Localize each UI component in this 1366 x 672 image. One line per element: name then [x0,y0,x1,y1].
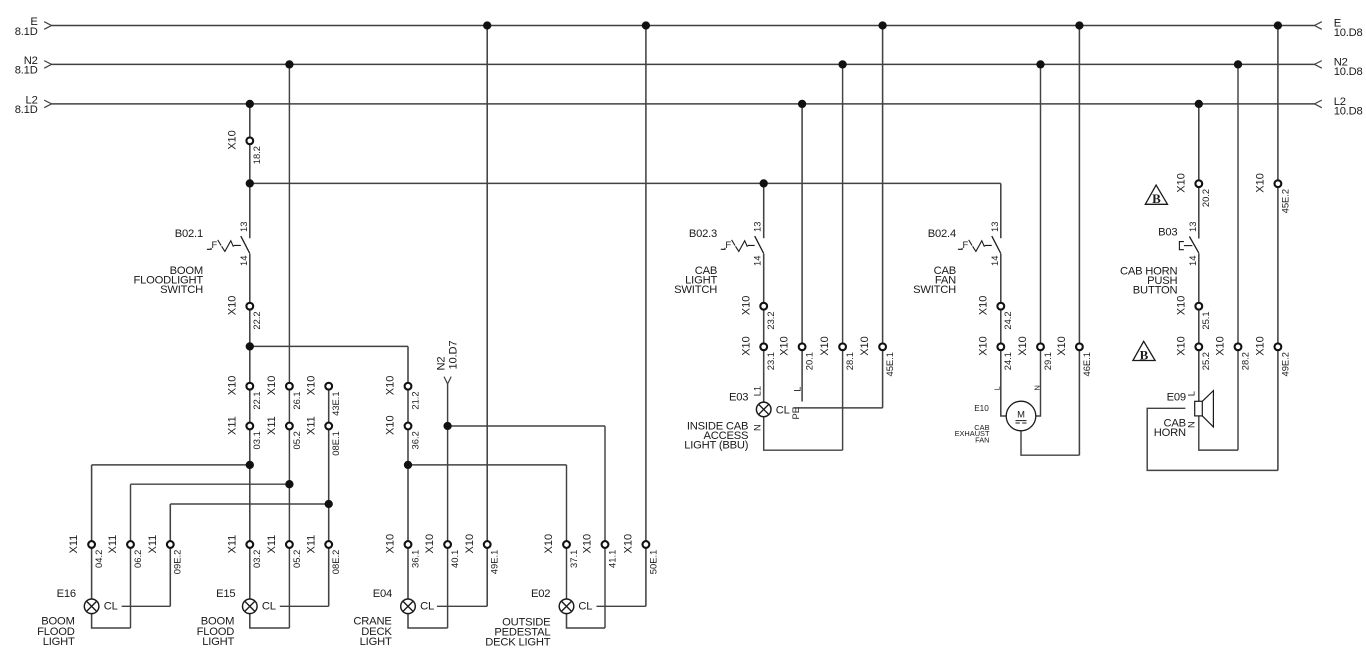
svg-text:13: 13 [1187,222,1198,232]
bus N2 [15,55,1363,78]
svg-text:FAN: FAN [975,435,989,444]
connector X10 pin 24.2 [977,296,1013,330]
svg-text:14: 14 [238,256,249,266]
lamp E03 INSIDE CAB ACCESS LIGHT (BBU) [684,386,802,452]
wire E15 CL link [280,605,329,607]
svg-text:LIGHT: LIGHT [202,636,234,648]
wire crane-deck column 21.2/36.2 down to lamp E04 [407,346,409,599]
junction N2.D7 branch [443,422,451,430]
wire branch y=346 to crane-deck column [250,345,408,347]
svg-text:F: F [963,239,969,250]
connector X10 pin 50E.1 [623,534,659,574]
junction L2/20.2 [1195,100,1203,108]
connector X10 pin 49E.1 [464,534,500,574]
svg-text:8.1D: 8.1D [15,26,38,38]
svg-text:14: 14 [752,256,763,266]
junction E/45E.2 [1274,21,1282,29]
label B02.4 CAB FAN SWITCH [913,228,956,296]
connector X10 pin 24.1 [977,336,1013,370]
wire E bus tap down to 46E.1 (motor PE) [1078,26,1080,456]
svg-text:X10: X10 [543,534,555,554]
svg-text:X10: X10 [266,376,278,396]
svg-text:X10: X10 [1255,173,1267,193]
svg-text:E02: E02 [531,588,550,600]
svg-text:X10: X10 [1056,336,1068,356]
svg-text:X10: X10 [819,336,831,356]
wire E16 earth column [169,504,171,606]
wire L2 tap down to 20.1 (E03 L) [801,104,803,402]
svg-text:CL: CL [578,600,592,612]
junction E04/E02 feed [404,461,412,469]
connector X10 pin 20.2 [1175,173,1211,207]
junction rail/B02.3 [760,179,768,187]
svg-text:X10: X10 [226,130,238,150]
connector X10 pin 23.2 [740,296,776,330]
motor E10 CAB EXHAUST FAN [955,385,1042,444]
wire L2 tap down to switch row (x=249.8) [249,104,251,238]
connector X10 pin 18.2 [226,130,262,164]
svg-text:08E.1: 08E.1 [330,431,341,456]
junction E15/E16 feed [246,461,254,469]
svg-text:L1: L1 [752,386,763,396]
svg-text:06.2: 06.2 [132,550,143,568]
svg-text:X10: X10 [1255,336,1267,356]
label B03 CAB HORN PUSH BUTTON [1120,227,1178,297]
connector X10 pin 45E.1 [859,336,895,376]
wire B02.1 out: switch to junction y=346 [249,254,251,347]
wire E16 neutral column [130,484,132,628]
connector X10 pin 23.1 [740,336,776,370]
switch B02.3 (latching switch with F actuator) [721,222,764,266]
junction N2/28.2 [1234,60,1242,68]
wire motor bottom PE link [1021,431,1079,455]
svg-text:X11: X11 [226,535,238,554]
svg-text:X10: X10 [740,296,752,316]
wire E04 CL link [437,605,487,607]
svg-text:B02.1: B02.1 [175,228,203,240]
lamp E02 OUTSIDE PEDESTAL DECK LIGHT [485,588,592,649]
wire E16 bottom to neutral [92,614,131,628]
svg-text:X11: X11 [226,416,238,435]
wire B02.3 out to lamp E03 [763,254,765,402]
svg-text:E10: E10 [974,404,989,413]
svg-text:BUTTON: BUTTON [1133,284,1178,296]
symbol warning triangle B (lower) [1133,341,1155,362]
svg-text:X10: X10 [385,376,397,396]
svg-text:36.2: 36.2 [409,431,420,449]
wire E16 feed column down to lamp [91,465,93,599]
svg-text:03.1: 03.1 [251,431,262,449]
connector X11 pin 08E.1 [305,416,341,455]
svg-text:20.1: 20.1 [804,352,815,370]
wire branch y=465 to E02 feed column [408,464,567,466]
svg-text:40.1: 40.1 [449,550,460,568]
svg-text:SWITCH: SWITCH [913,284,956,296]
connector X11 pin 03.1 [226,416,262,449]
svg-text:SWITCH: SWITCH [674,284,717,296]
svg-text:X10: X10 [226,376,238,396]
connector X10 pin 20.1 [779,336,815,370]
label B02.1 BOOM FLOODLIGHT SWITCH [134,228,204,296]
lamp E04 CRANE DECK LIGHT [353,588,434,648]
svg-text:X10: X10 [385,534,397,554]
svg-text:M: M [1017,409,1025,420]
connector X10 pin 41.1 [582,534,618,568]
junction earth branch [325,500,333,508]
wire N branch y=426 to E02 neutral column [448,425,605,427]
connector X11 pin 08E.2 [305,535,341,574]
svg-text:N: N [1186,421,1197,428]
connector X10 pin 28.1 [819,336,855,370]
svg-text:B: B [1152,191,1161,206]
svg-text:X10: X10 [582,534,594,554]
svg-text:36.1: 36.1 [409,550,420,568]
svg-text:14: 14 [1187,256,1198,266]
wire N2 tap down to 29.1 (motor N) [1036,64,1041,416]
svg-text:L: L [993,386,1002,390]
junction N2/28.1 [838,60,846,68]
svg-text:29.1: 29.1 [1042,352,1053,370]
svg-text:CL: CL [104,600,118,612]
svg-text:X11: X11 [305,535,317,554]
svg-text:CL: CL [420,600,434,612]
svg-text:B: B [1140,347,1149,362]
svg-text:LIGHT (BBU): LIGHT (BBU) [684,440,749,452]
svg-text:X11: X11 [107,535,119,554]
svg-text:X10: X10 [977,296,989,316]
svg-text:X10: X10 [305,376,317,396]
svg-text:49E.2: 49E.2 [1279,352,1290,377]
svg-text:43E.1: 43E.1 [330,391,341,416]
junction L2/20.1 [798,100,806,108]
junction E/46E.1 [1075,21,1083,29]
svg-text:CL: CL [776,404,790,416]
svg-text:20.2: 20.2 [1200,189,1211,207]
connector X10 pin 43E.1 [305,376,341,416]
switch B03 (momentary push button) [1179,222,1198,266]
svg-text:X10: X10 [1215,336,1227,356]
svg-text:X10: X10 [1175,336,1187,356]
connector X10 pin 22.1 [226,376,262,410]
wire E bus tap down to 45E.1 (E03 PE) [882,26,884,408]
connector X10 pin 49E.2 [1255,336,1291,376]
svg-text:X10: X10 [1175,173,1187,193]
svg-text:46E.1: 46E.1 [1081,352,1092,377]
wire branch to E16 lamp feed y=465 [92,464,250,466]
svg-text:F: F [212,239,218,250]
svg-text:18.2: 18.2 [251,146,262,164]
svg-text:X10: X10 [977,336,989,356]
junction N2/26.1 [285,60,293,68]
junction neutral branch [285,480,293,488]
svg-text:N: N [1032,385,1041,390]
wire B02.3 feed down from rail [763,183,765,238]
svg-text:24.1: 24.1 [1002,352,1013,370]
svg-text:22.1: 22.1 [251,391,262,409]
svg-text:DECK LIGHT: DECK LIGHT [485,637,551,649]
wire N2 tap down (26.1/05.2 column) [288,64,290,628]
svg-text:X11: X11 [266,416,278,435]
junction N2/29.1 [1036,60,1044,68]
connector X10 pin 25.2 [1175,336,1211,370]
svg-text:8.1D: 8.1D [15,65,38,77]
connector X11 pin 09E.2 [147,535,183,574]
svg-text:X11: X11 [305,416,317,435]
svg-text:25.1: 25.1 [1200,311,1211,329]
connector X10 pin 29.1 [1017,336,1053,370]
svg-text:10.D8: 10.D8 [1334,105,1363,117]
wire E02 neutral column [604,426,606,628]
svg-text:HORN: HORN [1154,427,1186,439]
label B02.3 CAB LIGHT SWITCH [674,228,717,296]
connector X11 pin 04.2 [68,535,104,568]
svg-text:09E.2: 09E.2 [172,550,183,575]
svg-text:X10: X10 [740,336,752,356]
svg-text:X10: X10 [424,534,436,554]
svg-text:49E.1: 49E.1 [489,550,500,575]
svg-text:25.2: 25.2 [1200,352,1211,370]
connector X10 pin 26.1 [266,376,302,410]
svg-text:B03: B03 [1158,227,1177,239]
horn E09 CAB HORN (loudspeaker) [1154,391,1214,439]
svg-text:B02.4: B02.4 [928,228,956,240]
svg-text:13: 13 [989,222,1000,232]
junction E/45E.1 [878,21,886,29]
wire L2 tap down to B03 push button [1198,104,1200,239]
connector X10 pin 22.2 [226,296,262,330]
bus L2 [15,95,1363,118]
junction rail/B02.1 [246,179,254,187]
svg-text:X11: X11 [147,535,159,554]
wire B03 out to horn L [1198,253,1200,401]
connector X11 pin 05.2 [266,416,302,449]
connector X11 pin 06.2 [107,535,143,568]
connector X11 pin 05.2 [266,535,302,568]
svg-text:10.D8: 10.D8 [1334,27,1363,39]
wire N2 tap down to 28.1 (E03 N) [842,64,844,450]
wire column 22.1/03.1 down to lamp E15 [249,346,251,599]
wire E02 bottom to neutral [567,614,606,628]
svg-text:SWITCH: SWITCH [160,284,203,296]
wire E bus tap down through 45E.2/49E.2 [1277,26,1279,471]
svg-text:28.2: 28.2 [1239,352,1250,370]
svg-text:N: N [752,424,763,431]
svg-text:X10: X10 [1017,336,1029,356]
svg-text:8.1D: 8.1D [15,104,38,116]
svg-text:10.D7: 10.D7 [448,341,460,370]
lamp E15 BOOM FLOOD LIGHT [197,588,276,648]
connector X10 pin 46E.1 [1056,336,1092,376]
wire earth column 49E.1 from bus E [486,26,488,607]
junction E/49E.1 [483,21,491,29]
svg-text:L: L [791,386,802,391]
svg-text:X10: X10 [859,336,871,356]
svg-text:X10: X10 [385,415,397,435]
wire N2 tap down to 28.2 (horn N) [1237,64,1239,450]
connector X11 pin 03.2 [226,535,262,568]
wire E16 CL link [122,605,171,607]
connector X10 pin 45E.2 [1255,173,1291,213]
svg-text:08E.2: 08E.2 [330,550,341,575]
symbol warning triangle B (upper) [1145,185,1167,206]
svg-text:22.2: 22.2 [251,311,262,329]
wire E03 N bottom link [764,417,843,451]
svg-text:41.1: 41.1 [606,550,617,568]
svg-text:LIGHT: LIGHT [360,636,392,648]
svg-text:05.2: 05.2 [291,431,302,449]
connector X10 pin 40.1 [424,534,460,568]
svg-text:X10: X10 [779,336,791,356]
svg-text:L: L [1186,391,1197,396]
node N2 10.D7 off-page arrow [436,341,460,628]
wire branch to E16 neutral y=484 [131,483,290,485]
svg-text:45E.1: 45E.1 [884,352,895,377]
svg-text:B02.3: B02.3 [689,228,717,240]
svg-text:X11: X11 [266,535,278,554]
wire E03 PE link [793,407,882,409]
svg-text:CL: CL [262,600,276,612]
svg-text:PE: PE [790,407,801,420]
svg-text:37.1: 37.1 [568,550,579,568]
wire horn N bottom link [1199,416,1238,450]
connector X10 pin 25.1 [1175,296,1211,330]
lamp E16 BOOM FLOOD LIGHT [37,588,117,648]
svg-text:LIGHT: LIGHT [43,636,75,648]
connector X10 pin 36.2 [385,415,421,449]
svg-text:X10: X10 [226,296,238,316]
svg-text:13: 13 [238,222,249,232]
svg-text:X11: X11 [68,535,80,554]
wire earth column 50E.1 from bus E [645,26,647,607]
svg-text:28.1: 28.1 [844,352,855,370]
svg-text:23.2: 23.2 [765,311,776,329]
svg-text:10.D8: 10.D8 [1334,66,1363,78]
svg-text:E09: E09 [1167,392,1186,404]
junction E/50E.1 [642,21,650,29]
svg-text:04.2: 04.2 [93,550,104,568]
svg-text:14: 14 [989,256,1000,266]
svg-text:E04: E04 [373,588,392,600]
svg-text:26.1: 26.1 [291,391,302,409]
bus E (top earth bus) [15,16,1363,39]
svg-text:E03: E03 [729,392,748,404]
switch B02.4 (latching switch with F actuator) [958,222,1001,266]
svg-text:X10: X10 [623,534,635,554]
wire branch to E16 earth y=504 [170,503,328,505]
wire E04 bottom to neutral [408,614,448,628]
connector X10 pin 21.2 [385,376,421,410]
wire horn PE link [1147,408,1278,470]
wire E15 bottom to neutral [250,614,290,628]
wire switched-L distribution rail y=183 [250,182,1001,184]
svg-text:13: 13 [752,222,763,232]
connector X10 pin 37.1 [543,534,579,568]
svg-text:E16: E16 [57,588,76,600]
junction L2/18.2 [246,100,254,108]
svg-text:45E.2: 45E.2 [1279,189,1290,214]
svg-text:X10: X10 [1175,296,1187,316]
svg-text:03.2: 03.2 [251,550,262,568]
wire B02.4 feed down from rail [1000,183,1002,238]
svg-text:E15: E15 [216,588,235,600]
svg-text:21.2: 21.2 [409,391,420,409]
switch B02.1 (latching switch with F actuator) [207,222,250,266]
junction B02.1 out [246,342,254,350]
svg-text:X10: X10 [464,534,476,554]
svg-text:24.2: 24.2 [1002,311,1013,329]
svg-text:23.1: 23.1 [765,352,776,370]
svg-text:05.2: 05.2 [291,550,302,568]
wire E02 CL link [597,605,646,607]
connector X10 pin 36.1 [385,534,421,568]
wire B02.4 out to motor [1001,254,1007,416]
wire 43E.1/08E.1 earth column [328,386,330,606]
connector X10 pin 28.2 [1215,336,1251,370]
svg-text:F: F [725,239,731,250]
svg-text:N2: N2 [436,357,448,371]
wire E02 feed column down to lamp [566,465,568,599]
svg-text:50E.1: 50E.1 [647,550,658,575]
